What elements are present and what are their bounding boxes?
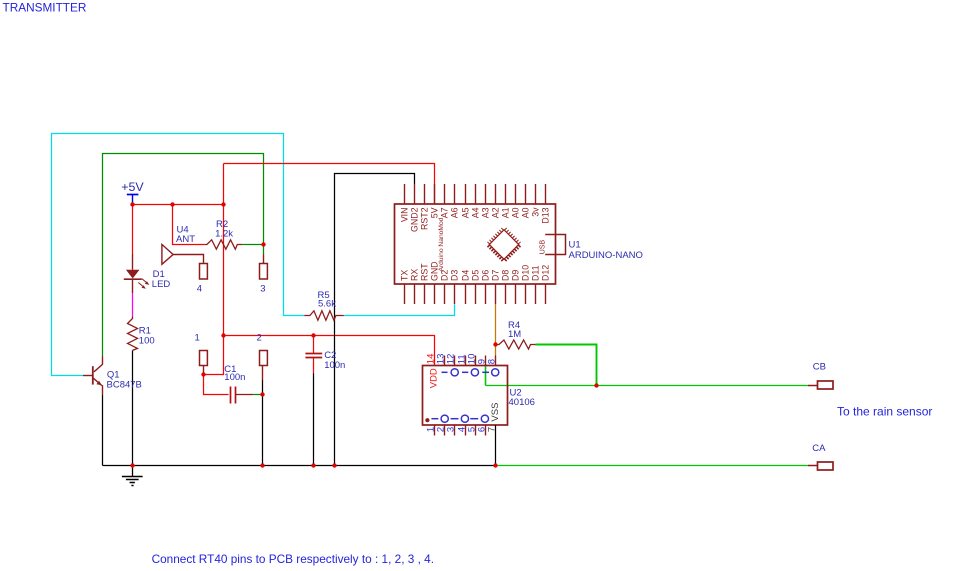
wire cyan net: R5 right to Arduino pin D3 <box>344 304 455 315</box>
svg-text:D9: D9 <box>511 270 521 281</box>
svg-text:A6: A6 <box>450 207 460 218</box>
wire green net: Q1 collector to R2 right / pin 3 (loop via top) <box>103 154 264 357</box>
svg-text:To the rain sensor: To the rain sensor <box>837 404 932 418</box>
wire bright-green CB horizontal <box>486 385 808 387</box>
U2 top inverter bubbles <box>442 369 499 376</box>
svg-text:TRANSMITTER: TRANSMITTER <box>3 1 87 15</box>
svg-text:D5: D5 <box>471 270 481 281</box>
ground symbol <box>132 466 134 477</box>
svg-text:8: 8 <box>486 359 497 364</box>
svg-text:4: 4 <box>197 283 202 294</box>
pin 2 terminal rectangle <box>260 351 268 366</box>
LED D1 light arrows <box>142 279 147 283</box>
pin 3 lead <box>263 255 265 264</box>
svg-text:Connect RT40 pins to PCB respe: Connect RT40 pins to PCB respectively to… <box>152 552 434 566</box>
svg-text:D6: D6 <box>481 270 491 281</box>
U1 microcontroller chip icon <box>485 225 523 263</box>
wire black pin2 / C1 node to ground rail <box>262 380 264 466</box>
svg-text:D3: D3 <box>450 270 460 281</box>
wire bright-green U2 pin9 vertical <box>485 366 487 386</box>
U1 bottom pins <box>405 284 546 304</box>
svg-text:100n: 100n <box>224 372 245 383</box>
svg-text:VSS: VSS <box>490 403 501 422</box>
U1 USB connector <box>545 235 565 255</box>
wire bright-green R4 right to CB terminal <box>536 345 597 386</box>
wire red +5V drop to U4/R2 left node <box>173 205 205 245</box>
wire red vertical net through R2 area down to C1 region <box>204 164 229 395</box>
svg-text:1M: 1M <box>508 329 521 340</box>
U1 top pin labels <box>400 207 551 232</box>
svg-text:TX: TX <box>400 270 410 281</box>
wire magenta LED cathode to R1 top <box>132 293 134 316</box>
U1 bottom pin labels <box>400 261 551 281</box>
svg-text:CA: CA <box>812 443 826 454</box>
U1 top pins <box>405 184 546 204</box>
svg-text:RST2: RST2 <box>420 207 430 230</box>
svg-text:U1: U1 <box>569 240 581 251</box>
svg-text:12: 12 <box>445 354 456 365</box>
svg-text:LED: LED <box>152 279 171 290</box>
wire black ground rail at bottom <box>103 465 496 467</box>
resistor R2 <box>205 240 242 249</box>
CA terminal lead <box>808 465 818 467</box>
svg-text:100n: 100n <box>324 360 345 371</box>
svg-text:1.2k: 1.2k <box>215 228 233 239</box>
wire red top rail to Arduino 5V pin <box>224 164 435 205</box>
svg-text:D11: D11 <box>531 265 541 281</box>
svg-text:RX: RX <box>410 269 420 281</box>
svg-text:A7: A7 <box>440 207 450 218</box>
svg-text:CB: CB <box>813 361 826 372</box>
pin 2 bottom lead <box>262 366 264 381</box>
svg-text:5V: 5V <box>430 207 440 218</box>
wire red +5V rail from power symbol to R2 branch <box>133 204 224 206</box>
diode D1 LED symbol <box>132 254 134 270</box>
U2 top pins 13-8 <box>445 356 496 366</box>
svg-text:BC847B: BC847B <box>107 380 142 391</box>
CB terminal rectangle <box>818 381 834 389</box>
svg-text:RST: RST <box>420 263 430 281</box>
U2 bottom pin numbers <box>425 427 497 432</box>
wire orange Arduino D7 to U2 pin 8 / R4 <box>495 304 497 356</box>
svg-text:Arduino NanoMod: Arduino NanoMod <box>438 217 445 271</box>
svg-text:1: 1 <box>195 333 200 344</box>
svg-text:D7: D7 <box>491 270 501 281</box>
svg-text:VIN: VIN <box>400 208 410 223</box>
wire junction dots <box>130 202 598 467</box>
wire green R2 right lead to pin-3 node <box>242 244 263 246</box>
wire red C2 top connection <box>313 336 315 354</box>
svg-text:D13: D13 <box>541 207 551 223</box>
svg-text:3: 3 <box>445 427 456 432</box>
pin 4 terminal rectangle <box>200 264 208 280</box>
wire cyan net: Q1 base to R5 left (big loop via top) <box>52 134 305 376</box>
IC U2 40106 body <box>423 366 508 426</box>
svg-text:D8: D8 <box>501 270 511 281</box>
svg-text:D4: D4 <box>461 270 471 281</box>
CB terminal lead <box>808 385 818 387</box>
svg-text:GND2: GND2 <box>410 207 420 232</box>
wire black R1 bottom to ground rail <box>132 350 134 465</box>
transistor Q1 BC847B <box>102 356 104 365</box>
svg-text:40106: 40106 <box>509 397 535 408</box>
wire black GND2 of Arduino routed left and down <box>335 174 415 466</box>
svg-text:100: 100 <box>139 335 155 346</box>
wire black C2 bottom to ground rail <box>313 373 315 465</box>
U2 top pin numbers <box>425 354 497 365</box>
svg-text:5.6k: 5.6k <box>318 299 336 310</box>
resistor R4 <box>496 340 536 349</box>
resistor R5 <box>304 311 344 320</box>
svg-text:D12: D12 <box>541 265 551 281</box>
svg-text:7: 7 <box>486 427 497 432</box>
svg-text:+5V: +5V <box>121 180 144 194</box>
svg-text:A0: A0 <box>521 207 531 218</box>
pin 1 terminal rectangle <box>200 351 208 366</box>
wire red C2 bottom lead <box>313 358 315 373</box>
resistor R1 <box>128 317 138 351</box>
svg-text:ARDUINO-NANO: ARDUINO-NANO <box>569 250 643 261</box>
U2 bottom inverter bubbles <box>425 415 488 422</box>
svg-text:A1: A1 <box>501 207 511 218</box>
capacitor C2 <box>305 353 322 355</box>
wire green C1 right segment <box>253 394 262 396</box>
svg-text:A5: A5 <box>461 207 471 218</box>
svg-text:3: 3 <box>260 283 265 294</box>
svg-text:D10: D10 <box>521 265 531 281</box>
svg-text:ANT: ANT <box>176 234 195 245</box>
capacitor C1 <box>230 387 232 404</box>
svg-text:3v: 3v <box>531 207 541 217</box>
wire black Q1 emitter to ground rail <box>102 395 104 466</box>
wire red LED anode drop from +5V rail <box>132 205 134 254</box>
antenna U4 <box>162 244 173 264</box>
CA terminal rectangle <box>818 462 834 470</box>
svg-text:USB: USB <box>540 239 547 254</box>
svg-text:A4: A4 <box>471 207 481 218</box>
wire bright-green CA horizontal from ground node <box>496 465 808 467</box>
pin 3 terminal rectangle <box>260 264 268 280</box>
svg-text:A3: A3 <box>481 207 491 218</box>
pin 1 bottom lead <box>203 366 205 375</box>
svg-text:VDD: VDD <box>429 368 440 388</box>
svg-text:2: 2 <box>257 333 262 344</box>
U2 bottom pins 1-6 <box>435 425 486 436</box>
wire red node-2 rail to U2 pin 14 <box>224 336 435 366</box>
U2 pin 7 black lead <box>495 425 497 466</box>
svg-text:A0: A0 <box>511 207 521 218</box>
op-amp U1 Arduino Nano body <box>395 204 556 284</box>
svg-text:A2: A2 <box>491 207 501 218</box>
